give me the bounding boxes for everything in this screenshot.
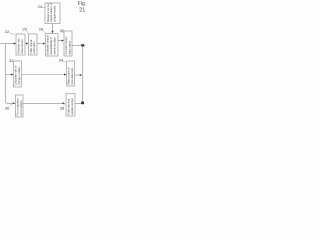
- svg-text:time data sets: time data sets: [70, 67, 74, 84]
- background: [0, 0, 89, 120]
- numeral 34 with leader: [59, 57, 67, 62]
- wire D output to bus corner: [72, 44, 84, 46]
- wire E to F: [22, 74, 67, 76]
- wire right vertical bus: [82, 46, 84, 104]
- svg-text:21: 21: [79, 8, 85, 14]
- box G: [16, 95, 24, 117]
- box H: [66, 94, 75, 117]
- wire G to H: [23, 102, 65, 104]
- wire C to D: [58, 40, 64, 42]
- svg-text:estimation: estimation: [32, 41, 36, 54]
- svg-text:data output: data output: [67, 41, 71, 55]
- wire bus corner into box H: [75, 101, 84, 104]
- numeral 22 with leader: [5, 29, 15, 35]
- box D: [64, 31, 72, 56]
- svg-text:36: 36: [5, 105, 10, 110]
- box F: [67, 61, 75, 86]
- wire A to B: [25, 43, 28, 45]
- box T (top: sensor input): [45, 3, 60, 24]
- box E: [14, 61, 22, 87]
- wire B to C: [37, 43, 45, 45]
- svg-text:22: 22: [5, 29, 10, 34]
- numeral 38 with leader: [60, 104, 65, 110]
- wire row1 input rail: [0, 43, 16, 45]
- svg-text:of correlation: of correlation: [19, 100, 23, 116]
- svg-text:analyte levels: analyte levels: [53, 5, 57, 22]
- numeral 24 with leader: [38, 4, 45, 9]
- numeral 26 with leader: [22, 27, 28, 34]
- numeral 28 with leader: [39, 27, 46, 34]
- numeral 36 with leader: [5, 104, 12, 110]
- svg-text:data stream: data stream: [20, 39, 24, 54]
- wire T stem down into box C: [52, 24, 54, 34]
- wire F output into bus: [75, 74, 83, 76]
- wire rail to box E: [6, 74, 14, 76]
- box A: [16, 34, 25, 55]
- box C: [46, 34, 59, 57]
- svg-text:reference data: reference data: [53, 37, 57, 55]
- numeral 30 with leader: [60, 28, 65, 33]
- box B: [29, 34, 38, 55]
- figure label Fig. 21: [78, 1, 86, 14]
- svg-text:24: 24: [38, 4, 43, 9]
- svg-text:change of data: change of data: [17, 67, 21, 85]
- numeral 32 with leader: [9, 58, 14, 63]
- svg-text:38: 38: [60, 105, 65, 110]
- svg-text:Fig.: Fig.: [78, 1, 86, 7]
- svg-text:update output: update output: [70, 98, 74, 115]
- wire left vertical rail with corner to bottom row: [6, 44, 14, 104]
- wire G input arrow: [13, 102, 15, 104]
